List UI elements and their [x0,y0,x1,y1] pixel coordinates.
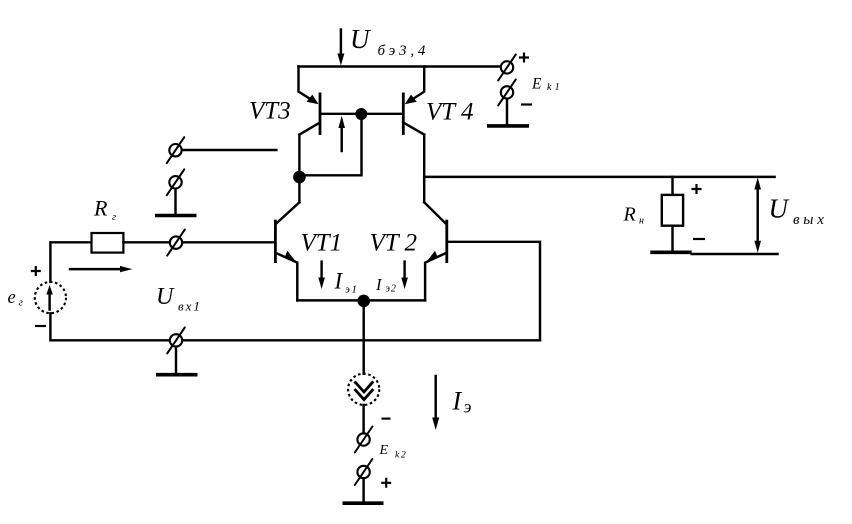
arrow input current [70,266,133,272]
label R_н [623,204,645,227]
svg-text:бэ3,4: бэ3,4 [378,43,430,59]
svg-text:VT3: VT3 [249,98,291,125]
svg-text:U: U [156,284,175,310]
wire VT4 collector down [423,135,425,177]
svg-text:н: н [639,216,644,227]
wire output to Rn [671,177,673,195]
wire Rg to input terminal [123,241,169,243]
node collector junction [293,171,306,184]
wire source bottom to rail [50,313,169,340]
terminal -Ek2 [355,427,373,453]
arrow U_вых double [754,178,761,253]
terminal -Ek1 [498,79,516,105]
label U_вых [769,194,828,229]
svg-text:k2: k2 [395,451,408,461]
label R_г [93,196,116,224]
wire source top to Rg [50,242,91,282]
wire VT2 base to right loop [448,242,540,340]
svg-text:VT1: VT1 [301,230,343,257]
svg-text:VT 2: VT 2 [370,230,417,257]
ground Rn [650,251,691,255]
terminal input2 ground side [167,169,185,195]
wire common emitter rail [297,299,425,301]
svg-text:e: e [8,288,16,308]
arrow I_э [432,376,439,430]
svg-text:вых: вых [793,212,828,228]
resistor Rn [662,195,683,226]
svg-text:U: U [350,24,371,54]
svg-text:VT 4: VT 4 [426,99,473,126]
wire output node to Rn and Uvyh [424,176,774,178]
arrow I_э2 [401,262,408,289]
svg-text:вх1: вх1 [178,299,202,314]
label E_k2 [379,443,408,461]
svg-text:U: U [769,194,790,224]
label I_э1 [334,269,359,296]
svg-text:г: г [112,212,116,223]
label e_g [8,288,24,309]
svg-text:E: E [531,76,542,93]
terminal +Ek1 [498,54,516,80]
label U_бэ3,4 [350,24,429,59]
wire current source to Ek2 terminal [362,405,364,433]
wire Ek2 to ground [362,478,364,501]
label + Ek2 [381,478,391,488]
label VT1 [301,230,343,257]
svg-text:R: R [93,196,108,221]
label I_э [452,387,472,417]
label I_э2 [375,275,397,295]
label + source [31,266,41,276]
wire emitter node to current source [362,301,364,374]
wire VT2 collector up [423,177,425,202]
svg-text:э2: э2 [386,284,397,295]
label + Ek1 [519,53,529,63]
label VT2 [370,230,417,257]
svg-text:R: R [623,204,636,226]
label - source [35,325,46,327]
svg-text:I: I [334,269,344,294]
svg-text:E: E [379,443,389,458]
node base junction [355,108,367,120]
terminal input2 [167,137,185,163]
wire bottom terminal to ground [175,347,177,373]
resistor Rg [92,233,124,253]
svg-text:г: г [19,297,24,309]
svg-text:э1: э1 [345,284,359,296]
wire Ek1 to ground [506,99,508,124]
wire VT3 collector down [298,135,300,203]
terminal +Ek2 [355,459,373,485]
ground Ek2 [343,501,384,505]
transistor VT2 [424,202,447,300]
label + Rn [692,184,702,194]
source e_g [35,282,66,313]
arrow U_be3,4 bottom (up) [338,116,345,151]
wire input2 stub [183,149,277,151]
ground Ek1 [487,124,529,128]
transistor VT4 [403,67,424,135]
wire bottom rail right part [183,339,540,341]
transistor VT1 [275,202,299,300]
current source I0 [348,374,379,405]
arrow U_be3,4 top (down) [337,30,344,66]
terminal bottom rail [167,327,185,353]
label VT4 [426,99,473,126]
ground bottom left [156,373,198,377]
wire Uvyh bottom reference line [692,253,778,255]
wire Rn to ground [671,226,673,251]
label VT3 [249,98,291,125]
svg-text:э: э [464,397,472,417]
svg-text:k1: k1 [547,82,563,93]
label U_вх1 [156,284,202,314]
wire top supply rail [299,65,501,67]
label - Ek1 [521,103,532,105]
transistor VT3 [299,67,321,135]
ground input2 [155,214,197,218]
wire input2 terminal to ground [174,189,176,214]
svg-text:I: I [452,387,463,416]
label - Rn [693,238,705,240]
wire diode connection (base to collector of VT3) [299,114,361,175]
label - Ek2 [382,418,391,420]
node common emitter [357,295,370,308]
wire input terminal to VT1 base [183,241,274,243]
terminal input1 [167,230,185,256]
wire VT3-VT4 base link [321,113,402,115]
label E_k1 [531,76,563,94]
arrow I_э1 [318,262,325,289]
